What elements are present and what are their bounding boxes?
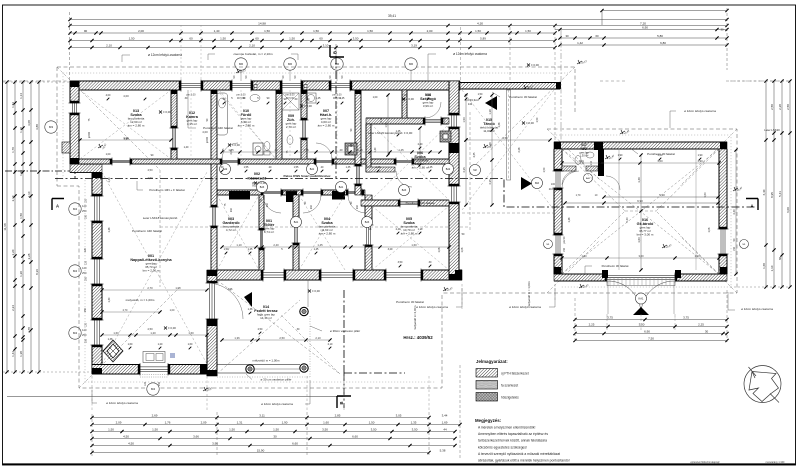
svg-text:3,00: 3,00 <box>638 254 644 258</box>
chimney block 007 <box>345 143 357 155</box>
svg-text:1,84: 1,84 <box>11 102 15 108</box>
svg-text:BA1: BA1 <box>310 168 315 171</box>
svg-text:tartószerkezeti tervek között,: tartószerkezeti tervek között, annak fel… <box>478 439 547 443</box>
interior dims 015 <box>466 139 550 141</box>
svg-text:1,60: 1,60 <box>411 243 417 247</box>
svg-text:1,90: 1,90 <box>694 254 700 258</box>
svg-text:Porotherm 30 falazat: Porotherm 30 falazat <box>602 264 629 268</box>
svg-text:14,98: 14,98 <box>258 21 266 25</box>
svg-text:2,05: 2,05 <box>230 149 233 154</box>
svg-text:1,31: 1,31 <box>237 421 243 425</box>
svg-text:210: 210 <box>350 142 353 147</box>
section line B-B <box>336 56 405 408</box>
window mark circles top <box>235 58 247 70</box>
svg-text:ø 12cm lefolyó-csatorna: ø 12cm lefolyó-csatorna <box>148 53 182 57</box>
eaves outline main house <box>57 67 575 388</box>
svg-text:4,50: 4,50 <box>147 176 153 180</box>
svg-text:Leier LSK20: Leier LSK20 <box>764 128 780 132</box>
terrace entry triangle <box>244 292 252 307</box>
svg-text:3,00: 3,00 <box>658 154 663 157</box>
svg-text:BA1: BA1 <box>294 221 299 224</box>
section marker B bottom <box>337 396 351 408</box>
svg-text:ø 12cm lefolyó csatorna: ø 12cm lefolyó csatorna <box>741 307 773 311</box>
svg-text:210: 210 <box>230 207 233 212</box>
svg-text:3,00: 3,00 <box>639 323 645 327</box>
wc room009 <box>287 136 293 145</box>
svg-text:építészeti földszinti alaprajz: építészeti földszinti alaprajz <box>690 461 720 464</box>
svg-text:ám = 2,80 m: ám = 2,80 m <box>238 123 255 127</box>
svg-text:2,24: 2,24 <box>11 305 15 311</box>
svg-text:60: 60 <box>189 36 193 40</box>
svg-text:1,50: 1,50 <box>220 36 226 40</box>
svg-text:1,60: 1,60 <box>128 343 133 346</box>
svg-text:BA3: BA3 <box>402 189 407 192</box>
svg-text:3,50: 3,50 <box>502 136 508 140</box>
south wall living room <box>92 365 140 375</box>
svg-text:4,50: 4,50 <box>123 435 129 439</box>
svg-text:M6: M6 <box>288 62 292 66</box>
partition 013-012 <box>171 90 177 128</box>
svg-text:3,60: 3,60 <box>637 237 641 243</box>
inner dim col house mid <box>387 95 389 155</box>
corridor piers <box>229 191 250 200</box>
svg-text:2,69: 2,69 <box>152 414 158 418</box>
svg-text:Leier LSK18 kéménykürtő: Leier LSK18 kéménykürtő <box>143 216 178 220</box>
garage corner blocks <box>554 142 561 149</box>
svg-text:2,10: 2,10 <box>380 117 383 122</box>
north wall 30 right part <box>460 83 560 90</box>
interior dims room013 <box>80 139 171 141</box>
svg-text:3,19: 3,19 <box>411 43 417 47</box>
svg-text:1,68: 1,68 <box>762 263 766 269</box>
svg-text:1,50: 1,50 <box>19 213 23 219</box>
svg-text:1,10: 1,10 <box>770 265 774 271</box>
svg-text:1,40: 1,40 <box>184 146 189 149</box>
svg-text:4,50: 4,50 <box>128 442 134 446</box>
svg-text:2,70 m²: 2,70 m² <box>286 125 296 129</box>
svg-text:250: 250 <box>85 276 88 281</box>
svg-text:3,99 m²: 3,99 m² <box>423 104 433 108</box>
svg-text:1,36: 1,36 <box>234 336 240 340</box>
svg-text:1,38: 1,38 <box>19 351 23 357</box>
garage wc partition <box>598 149 604 176</box>
svg-text:5,41: 5,41 <box>778 191 782 197</box>
svg-text:30: 30 <box>273 435 277 439</box>
svg-text:60: 60 <box>319 36 323 40</box>
svg-text:3,96: 3,96 <box>228 288 233 291</box>
svg-text:250: 250 <box>85 214 88 219</box>
svg-text:1,70: 1,70 <box>11 147 15 153</box>
svg-text:1,35: 1,35 <box>411 421 417 425</box>
wc room010 <box>264 142 270 151</box>
svg-text:30: 30 <box>705 330 709 334</box>
svg-text:2,50: 2,50 <box>258 328 263 331</box>
svg-text:B: B <box>339 401 344 404</box>
garage right inner dim col <box>735 150 737 274</box>
shower room009 <box>282 93 299 110</box>
svg-text:2,58: 2,58 <box>770 104 774 110</box>
svg-text:1,06: 1,06 <box>708 227 711 232</box>
west wall lower <box>92 173 102 197</box>
svg-text:1,50: 1,50 <box>273 428 279 432</box>
svg-text:1,35: 1,35 <box>357 148 363 152</box>
tick clusters interior <box>107 98 110 101</box>
svg-text:1,06: 1,06 <box>438 247 441 252</box>
svg-text:210+30: 210+30 <box>549 188 558 191</box>
svg-text:M6: M6 <box>239 62 243 66</box>
svg-text:30: 30 <box>565 34 569 38</box>
svg-text:1,48: 1,48 <box>108 227 111 232</box>
svg-text:1,44: 1,44 <box>11 351 15 357</box>
svg-text:ø 36cm vasbeton pillér: ø 36cm vasbeton pillér <box>330 329 360 333</box>
svg-text:120: 120 <box>84 247 87 252</box>
svg-text:2,09: 2,09 <box>116 421 122 425</box>
svg-text:1,50: 1,50 <box>229 428 235 432</box>
svg-text:4,00: 4,00 <box>202 130 208 134</box>
svg-text:1,50: 1,50 <box>367 29 373 33</box>
svg-text:3,95: 3,95 <box>124 138 129 141</box>
svg-text:2,28: 2,28 <box>518 147 521 152</box>
svg-text:mélyvédő m=1,00m: mélyvédő m=1,00m <box>413 305 417 330</box>
svg-text:Amennyiben eltérés tapasztalha: Amennyiben eltérés tapasztalható az épít… <box>478 432 548 436</box>
nappali east wall <box>211 164 217 207</box>
svg-text:1,96: 1,96 <box>384 122 388 128</box>
section marker A left <box>52 199 64 211</box>
garage inner dims <box>604 196 718 198</box>
interior dims bedrooms row <box>222 246 449 248</box>
svg-text:BA2: BA2 <box>446 168 451 171</box>
svg-text:ám = 2,80 m: ám = 2,80 m <box>401 231 418 235</box>
svg-text:1,55: 1,55 <box>294 166 299 169</box>
legend swatch insulation <box>476 393 498 402</box>
partition 010-009 <box>276 90 282 159</box>
svg-text:1,50: 1,50 <box>108 428 114 432</box>
garage inner bottom dims <box>562 257 719 259</box>
right dimension chain <box>765 81 767 287</box>
garage door label KA1 <box>636 293 647 304</box>
svg-text:2,28: 2,28 <box>778 104 782 110</box>
svg-text:ám = 2,80 m: ám = 2,80 m <box>412 165 429 169</box>
svg-text:± 0,00: ± 0,00 <box>304 104 312 108</box>
svg-text:ø 12cm lefolyó csatorna: ø 12cm lefolyó csatorna <box>106 401 138 405</box>
svg-text:210: 210 <box>356 204 359 209</box>
eaves outline garage <box>442 129 737 293</box>
svg-text:mélyvédő, m = 1,00m: mélyvédő, m = 1,00m <box>126 298 155 302</box>
garage eaves side dashes <box>600 80 625 82</box>
svg-text:hőszigetelés: hőszigetelés <box>501 396 519 400</box>
svg-text:2,00: 2,00 <box>427 29 433 33</box>
svg-text:1,90: 1,90 <box>698 154 703 157</box>
svg-text:4,00: 4,00 <box>106 94 111 97</box>
garage south wall <box>554 274 607 281</box>
svg-text:3,50: 3,50 <box>398 261 403 264</box>
svg-text:M4: M4 <box>73 207 77 211</box>
door mark circles corridor <box>220 164 231 175</box>
svg-text:250: 250 <box>85 338 88 343</box>
svg-text:2,58: 2,58 <box>786 104 790 110</box>
svg-text:1,60: 1,60 <box>188 343 193 346</box>
svg-text:1,45: 1,45 <box>340 97 345 100</box>
svg-text:M6: M6 <box>409 62 413 66</box>
svg-text:1,38: 1,38 <box>488 109 492 115</box>
svg-text:1,06: 1,06 <box>461 247 464 252</box>
svg-text:6,90: 6,90 <box>637 199 643 203</box>
svg-text:5,10: 5,10 <box>659 193 665 197</box>
svg-text:6,00: 6,00 <box>786 207 790 213</box>
svg-text:250: 250 <box>82 209 87 213</box>
svg-text:1,50: 1,50 <box>478 93 483 96</box>
carport posts <box>507 90 511 180</box>
svg-text:kölcsönös egyeztetés szükséges: kölcsönös egyeztetés szükséges! <box>478 445 527 449</box>
svg-text:Porotherm 30 falazat: Porotherm 30 falazat <box>396 300 424 304</box>
small sq marks on north wall <box>254 85 257 88</box>
svg-text:4,50: 4,50 <box>147 327 153 331</box>
svg-text:ám = 2,80 m: ám = 2,80 m <box>319 231 336 235</box>
svg-text:3,96: 3,96 <box>212 442 218 446</box>
svg-text:1,55: 1,55 <box>303 148 309 152</box>
svg-text:1,45: 1,45 <box>428 166 433 169</box>
svg-text:210: 210 <box>266 202 269 207</box>
boiler room007 <box>306 93 316 103</box>
svg-text:8,36: 8,36 <box>35 269 39 275</box>
svg-text:120: 120 <box>85 260 88 265</box>
svg-text:Porotherm 10N + F falazat: Porotherm 10N + F falazat <box>149 188 184 192</box>
svg-text:1,20: 1,20 <box>150 331 156 335</box>
svg-text:90 5 60: 90 5 60 <box>286 97 295 100</box>
svg-text:1,50: 1,50 <box>313 29 319 33</box>
top dimension chain <box>70 19 727 21</box>
interior door arcs <box>222 143 238 159</box>
svg-text:1,90: 1,90 <box>578 159 584 163</box>
garage door swing <box>608 281 641 314</box>
svg-text:bm = 3,00 m: bm = 3,00 m <box>637 232 654 236</box>
svg-text:4,35: 4,35 <box>462 167 466 173</box>
west wall upper <box>70 81 79 103</box>
svg-text:2,20: 2,20 <box>11 249 15 255</box>
svg-text:5,80: 5,80 <box>657 34 663 38</box>
svg-text:1,20: 1,20 <box>19 271 23 277</box>
svg-text:120: 120 <box>82 266 87 270</box>
garage east wall <box>719 149 727 229</box>
interior dims terrace <box>222 339 330 341</box>
svg-text:± 0,00: ± 0,00 <box>232 143 240 147</box>
svg-text:A: A <box>750 204 753 209</box>
svg-text:2,40: 2,40 <box>273 243 279 247</box>
svg-text:1,50: 1,50 <box>224 248 229 251</box>
main entry triangle <box>485 96 497 110</box>
svg-text:4,35: 4,35 <box>473 152 476 157</box>
svg-text:2,78: 2,78 <box>27 327 31 333</box>
svg-text:Hrsz.: 4039/52: Hrsz.: 4039/52 <box>403 335 433 340</box>
svg-text:M4: M4 <box>73 331 77 335</box>
svg-text:210: 210 <box>590 160 593 165</box>
svg-text:1,38: 1,38 <box>108 338 113 341</box>
svg-text:ám = 2,80 m: ám = 2,80 m <box>318 123 335 127</box>
svg-text:1,45: 1,45 <box>396 130 401 133</box>
svg-text:1,30 m²: 1,30 m² <box>580 154 589 158</box>
svg-text:1,14: 1,14 <box>19 93 23 99</box>
svg-text:6,90: 6,90 <box>644 330 650 334</box>
garage wc south wall <box>562 166 576 171</box>
svg-text:30: 30 <box>720 28 724 32</box>
svg-text:3,08: 3,08 <box>27 120 31 126</box>
svg-text:3,50: 3,50 <box>412 428 418 432</box>
svg-text:1,76: 1,76 <box>165 421 171 425</box>
svg-text:KA1: KA1 <box>639 297 644 301</box>
inner dim col 015 <box>465 95 467 205</box>
svg-text:A: A <box>56 204 59 209</box>
svg-text:pm 90: pm 90 <box>563 236 566 243</box>
svg-text:1,60: 1,60 <box>113 331 119 335</box>
svg-text:3,50: 3,50 <box>322 428 328 432</box>
svg-text:1,45: 1,45 <box>317 243 323 247</box>
window mark circle M6 near 008 <box>405 58 417 70</box>
svg-text:1,48: 1,48 <box>362 243 368 247</box>
svg-text:2,10: 2,10 <box>249 43 255 47</box>
north arrow <box>744 366 781 403</box>
washbasin room010 <box>250 95 260 102</box>
svg-text:1,36: 1,36 <box>248 308 253 311</box>
west step wall <box>70 164 102 173</box>
svg-text:± 0,00: ± 0,00 <box>531 63 539 67</box>
terrace west wall <box>207 270 217 283</box>
property line bottom left <box>7 396 345 398</box>
legend swatch wood <box>476 381 498 390</box>
svg-text:2,40: 2,40 <box>418 143 423 146</box>
svg-text:3,88: 3,88 <box>35 124 39 130</box>
svg-text:ø 12cm lefolyó csatorna: ø 12cm lefolyó csatorna <box>261 402 293 406</box>
bathtub room010 <box>217 93 228 135</box>
svg-text:1,00: 1,00 <box>175 286 181 290</box>
svg-text:Jelmagyarázat:: Jelmagyarázat: <box>476 359 508 364</box>
svg-text:csempe burkolat, m = 2,10m: csempe burkolat, m = 2,10m <box>233 52 273 56</box>
svg-text:M4: M4 <box>73 269 77 273</box>
bottom dimension chain garage <box>575 319 727 321</box>
svg-text:2,10: 2,10 <box>315 336 321 340</box>
svg-text:1,45: 1,45 <box>314 248 319 251</box>
svg-text:ø 12cm lefolyó csatorna: ø 12cm lefolyó csatorna <box>509 305 541 309</box>
garage north wall <box>554 142 727 149</box>
svg-text:1,00: 1,00 <box>106 153 111 156</box>
svg-text:Pakos DWS Smart padlófűtéshez: Pakos DWS Smart padlófűtéshez <box>283 174 331 178</box>
section marker A right <box>746 199 758 211</box>
svg-text:4,40: 4,40 <box>732 209 736 215</box>
garage entry triangle <box>633 307 649 315</box>
svg-text:2,28: 2,28 <box>488 142 492 148</box>
svg-text:250: 250 <box>82 271 87 275</box>
room006 north wall <box>366 118 425 124</box>
svg-text:3,50: 3,50 <box>353 36 359 40</box>
svg-text:210: 210 <box>310 204 313 209</box>
svg-text:1,70: 1,70 <box>576 194 581 197</box>
svg-text:1,50: 1,50 <box>543 167 546 172</box>
svg-text:1,50: 1,50 <box>129 36 135 40</box>
svg-text:1,35: 1,35 <box>346 166 351 169</box>
svg-text:Porotherm 44K falazat: Porotherm 44K falazat <box>406 201 435 205</box>
chimney diamond <box>103 340 123 362</box>
svg-text:250: 250 <box>158 381 161 386</box>
wall corner blocks <box>70 81 79 87</box>
svg-text:1,90: 1,90 <box>697 159 703 163</box>
svg-text:60: 60 <box>778 257 782 261</box>
svg-text:150: 150 <box>563 247 566 252</box>
svg-text:1,42: 1,42 <box>577 41 583 45</box>
svg-text:3,66: 3,66 <box>193 435 199 439</box>
svg-text:1,48: 1,48 <box>108 177 111 182</box>
entrance 008 walls <box>402 90 407 118</box>
svg-text:2,10: 2,10 <box>106 43 112 47</box>
svg-text:2,10: 2,10 <box>443 117 446 122</box>
svg-text:BA1: BA1 <box>339 186 344 189</box>
svg-text:7,50: 7,50 <box>648 337 654 341</box>
svg-text:3,29: 3,29 <box>388 248 393 251</box>
north wall 44K <box>70 81 181 90</box>
svg-text:6,60: 6,60 <box>292 442 298 446</box>
svg-text:1,20: 1,20 <box>158 343 163 346</box>
svg-text:250: 250 <box>84 307 87 312</box>
svg-text:1,40: 1,40 <box>214 29 220 33</box>
svg-text:6,80: 6,80 <box>660 41 666 45</box>
partition 005-006 <box>361 200 400 206</box>
partition 001elt-004 <box>293 195 299 225</box>
svg-text:Porotherm 44K falazat: Porotherm 44K falazat <box>132 229 162 233</box>
svg-text:4,35 m²: 4,35 m² <box>187 122 197 126</box>
legend swatch new wall <box>476 369 498 378</box>
svg-text:40: 40 <box>340 148 343 152</box>
east wall <box>449 81 459 115</box>
garage door leaf strip <box>607 278 675 286</box>
svg-text:44: 44 <box>443 428 447 432</box>
room006 west wall <box>366 124 371 172</box>
svg-text:WC: WC <box>581 147 587 151</box>
svg-text:1,50: 1,50 <box>289 36 295 40</box>
mark circles west <box>399 185 410 196</box>
svg-text:2,70: 2,70 <box>123 309 128 312</box>
svg-text:3,05: 3,05 <box>396 414 402 418</box>
terrace columns round <box>246 365 254 373</box>
svg-text:ábrázoltak, gyártásuk előtt a: ábrázoltak, gyártásuk előtt a méreték he… <box>478 459 570 463</box>
svg-text:3,44: 3,44 <box>442 414 448 418</box>
room diagonals dashed <box>80 90 171 159</box>
inner dim col garage mid <box>640 155 642 270</box>
svg-text:1,45: 1,45 <box>376 166 381 169</box>
svg-text:1,50: 1,50 <box>525 29 531 33</box>
svg-text:1,40: 1,40 <box>426 94 431 97</box>
svg-text:bm = 2,90 m: bm = 2,90 m <box>143 268 160 272</box>
svg-text:ø 12cm lefolyó csatorna: ø 12cm lefolyó csatorna <box>684 109 716 113</box>
svg-text:BA3: BA3 <box>365 221 370 224</box>
svg-text:120: 120 <box>144 381 147 386</box>
svg-text:120: 120 <box>82 328 87 332</box>
svg-text:6,90: 6,90 <box>642 25 648 29</box>
svg-text:1,00: 1,00 <box>170 309 175 312</box>
svg-text:± 0,00: ± 0,00 <box>258 181 266 185</box>
svg-text:2,25: 2,25 <box>589 323 595 327</box>
svg-text:1,50: 1,50 <box>369 421 375 425</box>
svg-text:Leier LSK20 kéménykürtő: ± 0,0: Leier LSK20 kéménykürtő: ± 0,00 <box>368 131 413 135</box>
svg-text:14,14 m²: 14,14 m² <box>260 316 272 320</box>
svg-text:6,40: 6,40 <box>762 189 766 195</box>
svg-text:5,40: 5,40 <box>625 217 629 223</box>
svg-text:8,74 m²: 8,74 m² <box>264 230 274 234</box>
svg-text:M4: M4 <box>151 387 155 391</box>
svg-text:ø 30 cm vasbeton pillér: ø 30 cm vasbeton pillér <box>260 378 291 382</box>
partition 007-006 thick <box>355 90 361 166</box>
more top row5 ticks <box>90 46 93 49</box>
kitchen counter <box>143 352 165 363</box>
window mark circle M3 left <box>45 121 57 133</box>
svg-text:1,45: 1,45 <box>398 148 404 152</box>
